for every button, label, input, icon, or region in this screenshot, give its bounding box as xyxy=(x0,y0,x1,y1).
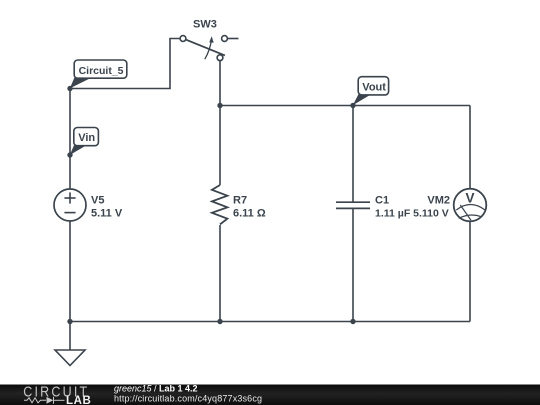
svg-text:VM2: VM2 xyxy=(427,195,450,207)
svg-text:Circuit_5: Circuit_5 xyxy=(79,65,124,77)
svg-text:1.11 µF 5.110 V: 1.11 µF 5.110 V xyxy=(375,208,449,220)
svg-text:5.11 V: 5.11 V xyxy=(91,208,123,220)
svg-text:SW3: SW3 xyxy=(193,19,217,31)
svg-text:greenc15 / Lab 1 4.2: greenc15 / Lab 1 4.2 xyxy=(114,384,198,394)
svg-text:V: V xyxy=(465,191,474,206)
svg-text:Vin: Vin xyxy=(78,132,95,144)
svg-text:6.11 Ω: 6.11 Ω xyxy=(233,208,266,220)
svg-text:V5: V5 xyxy=(91,195,104,207)
svg-text:Vout: Vout xyxy=(362,81,386,93)
svg-text:C1: C1 xyxy=(375,195,389,207)
svg-text:R7: R7 xyxy=(233,195,247,207)
svg-text:LAB: LAB xyxy=(66,395,91,405)
svg-text:http://circuitlab.com/c4yq877x: http://circuitlab.com/c4yq877x3s6cg xyxy=(114,394,262,404)
